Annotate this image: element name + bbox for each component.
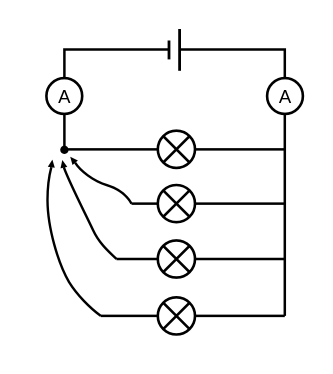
wire node to lamp L1 [64, 148, 157, 151]
battery B1 long plate (positive) [178, 29, 181, 71]
arrowhead to node (from L2) [70, 157, 78, 165]
arrowhead to node (from L3) [61, 160, 68, 168]
ammeter A (left) [46, 78, 82, 114]
wire right rail [284, 114, 287, 316]
wire lamp L3 to right rail [195, 258, 285, 261]
wire stub to lamp L4 [101, 315, 158, 318]
curved pointer from lamp L3 wire to node [64, 168, 117, 259]
arrowhead to node (from L4) [48, 160, 55, 168]
curved pointer from lamp L2 wire to node [75, 163, 131, 204]
lamp L2 [158, 185, 195, 222]
svg-text:A: A [279, 86, 292, 107]
lamp L1 [158, 131, 195, 168]
wire lamp L2 to right rail [195, 202, 285, 205]
svg-text:A: A [58, 86, 71, 107]
wire lamp L4 to right rail [195, 315, 285, 318]
wire stub to lamp L2 [132, 202, 158, 205]
lamp L3 [158, 240, 195, 277]
wire left ammeter to node [63, 114, 66, 150]
node junction dot [60, 146, 68, 154]
wire top-left horizontal and left vertical drop [64, 50, 169, 79]
wire top-right horizontal and right vertical drop [180, 50, 285, 79]
wire lamp L1 to right rail [195, 148, 285, 151]
lamp L4 [158, 297, 195, 334]
curved pointer from lamp L4 wire to node [47, 167, 100, 316]
battery B1 short plate (negative) [168, 41, 171, 60]
ammeter A (right) [267, 78, 303, 114]
wire stub to lamp L3 [117, 258, 158, 261]
